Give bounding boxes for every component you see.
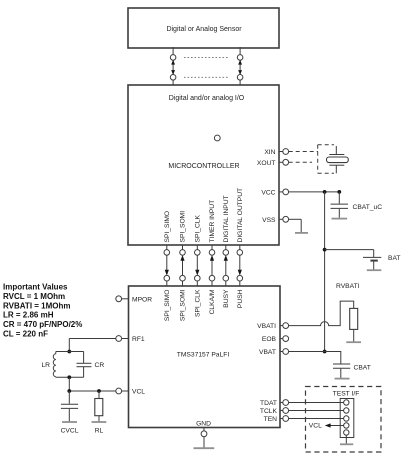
wire TDAT to connector	[289, 402, 344, 404]
wire sensor-right connector	[237, 47, 243, 85]
node tank top	[67, 350, 71, 354]
wire VBAT to CBAT	[289, 352, 341, 364]
svg-text:DIGITAL INPUT: DIGITAL INPUT	[223, 195, 230, 242]
svg-text:Important Values: Important Values	[3, 283, 68, 292]
open end bar under RL	[92, 421, 107, 423]
svg-text:SPI_SOMI: SPI_SOMI	[180, 211, 187, 243]
svg-text:SPI_SIMO: SPI_SIMO	[164, 211, 171, 243]
connector pin 5	[344, 430, 349, 435]
timer connector (up)	[209, 245, 215, 286]
pin TDAT	[260, 400, 289, 407]
svg-text:TCLK: TCLK	[260, 408, 278, 415]
battery BAT	[363, 257, 381, 269]
svg-text:RL: RL	[95, 427, 104, 434]
open end bar under RVBATI	[346, 341, 361, 343]
svg-text:CLKA/M: CLKA/M	[209, 289, 216, 314]
svg-text:SPI_CLK: SPI_CLK	[195, 289, 202, 317]
svg-text:Digital and/or analog I/O: Digital and/or analog I/O	[169, 95, 245, 102]
svg-text:TEN: TEN	[264, 416, 278, 423]
busy connector (up)	[223, 245, 229, 286]
svg-text:TEST I/F: TEST I/F	[333, 390, 360, 397]
ground under test connector	[340, 435, 353, 444]
svg-text:EOB: EOB	[262, 336, 277, 343]
pin EOB	[262, 336, 289, 343]
wire VBATI with hop	[289, 301, 354, 326]
svg-text:CBAT: CBAT	[354, 365, 371, 372]
svg-text:VCL: VCL	[309, 423, 322, 430]
svg-text:PUSH: PUSH	[237, 289, 244, 308]
connector pin 4	[344, 423, 349, 428]
dashed crystal frame	[318, 145, 334, 174]
wire TCLK to connector	[289, 410, 344, 412]
svg-text:BAT: BAT	[388, 255, 401, 262]
open end bar under CBAT_uC	[332, 218, 348, 220]
open end bar under CBAT	[335, 378, 350, 380]
svg-text:VBATI: VBATI	[257, 323, 276, 330]
svg-text:MPOR: MPOR	[132, 296, 152, 303]
pin MPOR	[116, 296, 152, 303]
tank loop bottom wire	[56, 376, 84, 378]
pin XOUT	[257, 159, 289, 166]
SPI connector CLK (down)	[195, 245, 201, 286]
VCL output arrow	[309, 423, 344, 430]
crystal Y1	[327, 146, 349, 173]
wire VCL	[67, 389, 115, 393]
svg-text:CR: CR	[95, 362, 105, 369]
capacitor CR	[77, 352, 92, 378]
svg-text:CBAT_uC: CBAT_uC	[353, 204, 383, 211]
dashed wire XIN to crystal	[289, 151, 318, 153]
svg-text:BUSY: BUSY	[223, 289, 230, 308]
svg-text:RVBATI = 1MOhm: RVBATI = 1MOhm	[3, 301, 71, 310]
svg-text:CL = 220 nF: CL = 220 nF	[3, 330, 48, 339]
connector pin 2	[344, 408, 349, 413]
svg-text:TDAT: TDAT	[260, 400, 277, 407]
pin VCL	[116, 388, 145, 395]
wire VCC net	[289, 190, 341, 194]
svg-text:XIN: XIN	[264, 149, 275, 156]
pin VSS	[262, 216, 288, 223]
pin XIN	[264, 149, 288, 156]
pin VBAT	[259, 349, 289, 356]
capacitor CVCL	[61, 391, 78, 421]
PaLFI U2 TMS37157	[129, 286, 281, 428]
svg-text:Digital or Analog Sensor: Digital or Analog Sensor	[166, 26, 242, 33]
pin VBATI	[257, 323, 288, 330]
wire TEN to connector	[289, 418, 344, 420]
svg-text:VCL: VCL	[132, 389, 145, 396]
svg-text:VSS: VSS	[262, 217, 276, 224]
svg-text:SPI_SOMI: SPI_SOMI	[180, 289, 187, 321]
svg-text:DIGITAL OUTPUT: DIGITAL OUTPUT	[237, 188, 244, 243]
resistor RVBATI	[350, 308, 358, 341]
sensor block	[128, 8, 279, 48]
stray pin circle inside microcontroller	[214, 135, 220, 141]
connector pin 1	[344, 400, 349, 405]
svg-text:RF1: RF1	[132, 336, 145, 343]
microcontroller U1	[128, 85, 279, 245]
wire battery rail	[323, 192, 327, 354]
wire tank to VCL line	[68, 377, 70, 391]
SPI connector SOMI (up)	[180, 245, 186, 286]
inductor LR	[53, 352, 56, 378]
wire to battery	[325, 250, 374, 258]
pin TEN	[264, 416, 289, 423]
svg-text:XOUT: XOUT	[257, 160, 276, 167]
svg-text:CVCL: CVCL	[61, 427, 79, 434]
svg-text:SPI_CLK: SPI_CLK	[195, 214, 202, 242]
push connector (down)	[237, 245, 243, 286]
svg-text:RVCL = 1 MOhm: RVCL = 1 MOhm	[3, 292, 65, 301]
dashed wire XOUT to crystal	[289, 161, 312, 163]
pin TCLK	[260, 408, 289, 415]
svg-text:VCC: VCC	[261, 189, 275, 196]
important values note	[3, 283, 82, 339]
svg-text:TMS37157 PaLFI: TMS37157 PaLFI	[177, 352, 230, 359]
capacitor CBAT	[333, 364, 350, 378]
connector pin 3	[344, 416, 349, 421]
svg-text:RVBATI: RVBATI	[336, 283, 360, 290]
capacitor CBAT_uC	[331, 192, 349, 218]
svg-text:MICROCONTROLLER: MICROCONTROLLER	[168, 163, 239, 170]
svg-text:VBAT: VBAT	[259, 349, 276, 356]
ground at VSS	[289, 219, 308, 233]
bus continuation dots bottom	[184, 76, 228, 78]
pin GND	[196, 421, 211, 437]
tank loop top wire	[56, 351, 84, 353]
open end bar under battery	[367, 269, 382, 271]
svg-text:GND: GND	[196, 421, 211, 428]
test connector J1	[340, 399, 354, 438]
svg-text:CR = 470 pF/NPO/2%: CR = 470 pF/NPO/2%	[3, 320, 82, 329]
bus continuation dots top	[184, 56, 228, 58]
svg-text:LR = 2.86 mH: LR = 2.86 mH	[3, 311, 54, 320]
ground under GND	[194, 437, 215, 449]
svg-text:SPI_SIMO: SPI_SIMO	[164, 290, 171, 322]
node tank bottom	[67, 375, 71, 379]
svg-text:TIMER INPUT: TIMER INPUT	[209, 200, 216, 243]
pin VCC	[261, 189, 288, 196]
TEST I/F dashed box	[306, 387, 382, 453]
open end bar under CVCL	[62, 421, 77, 423]
resistor RL	[95, 391, 103, 421]
pin RF1	[116, 336, 145, 343]
SPI connector SIMO (down)	[164, 245, 170, 286]
wire RF1 to tank	[69, 339, 116, 352]
svg-text:LR: LR	[41, 362, 50, 369]
wire sensor-left connector	[170, 47, 176, 85]
